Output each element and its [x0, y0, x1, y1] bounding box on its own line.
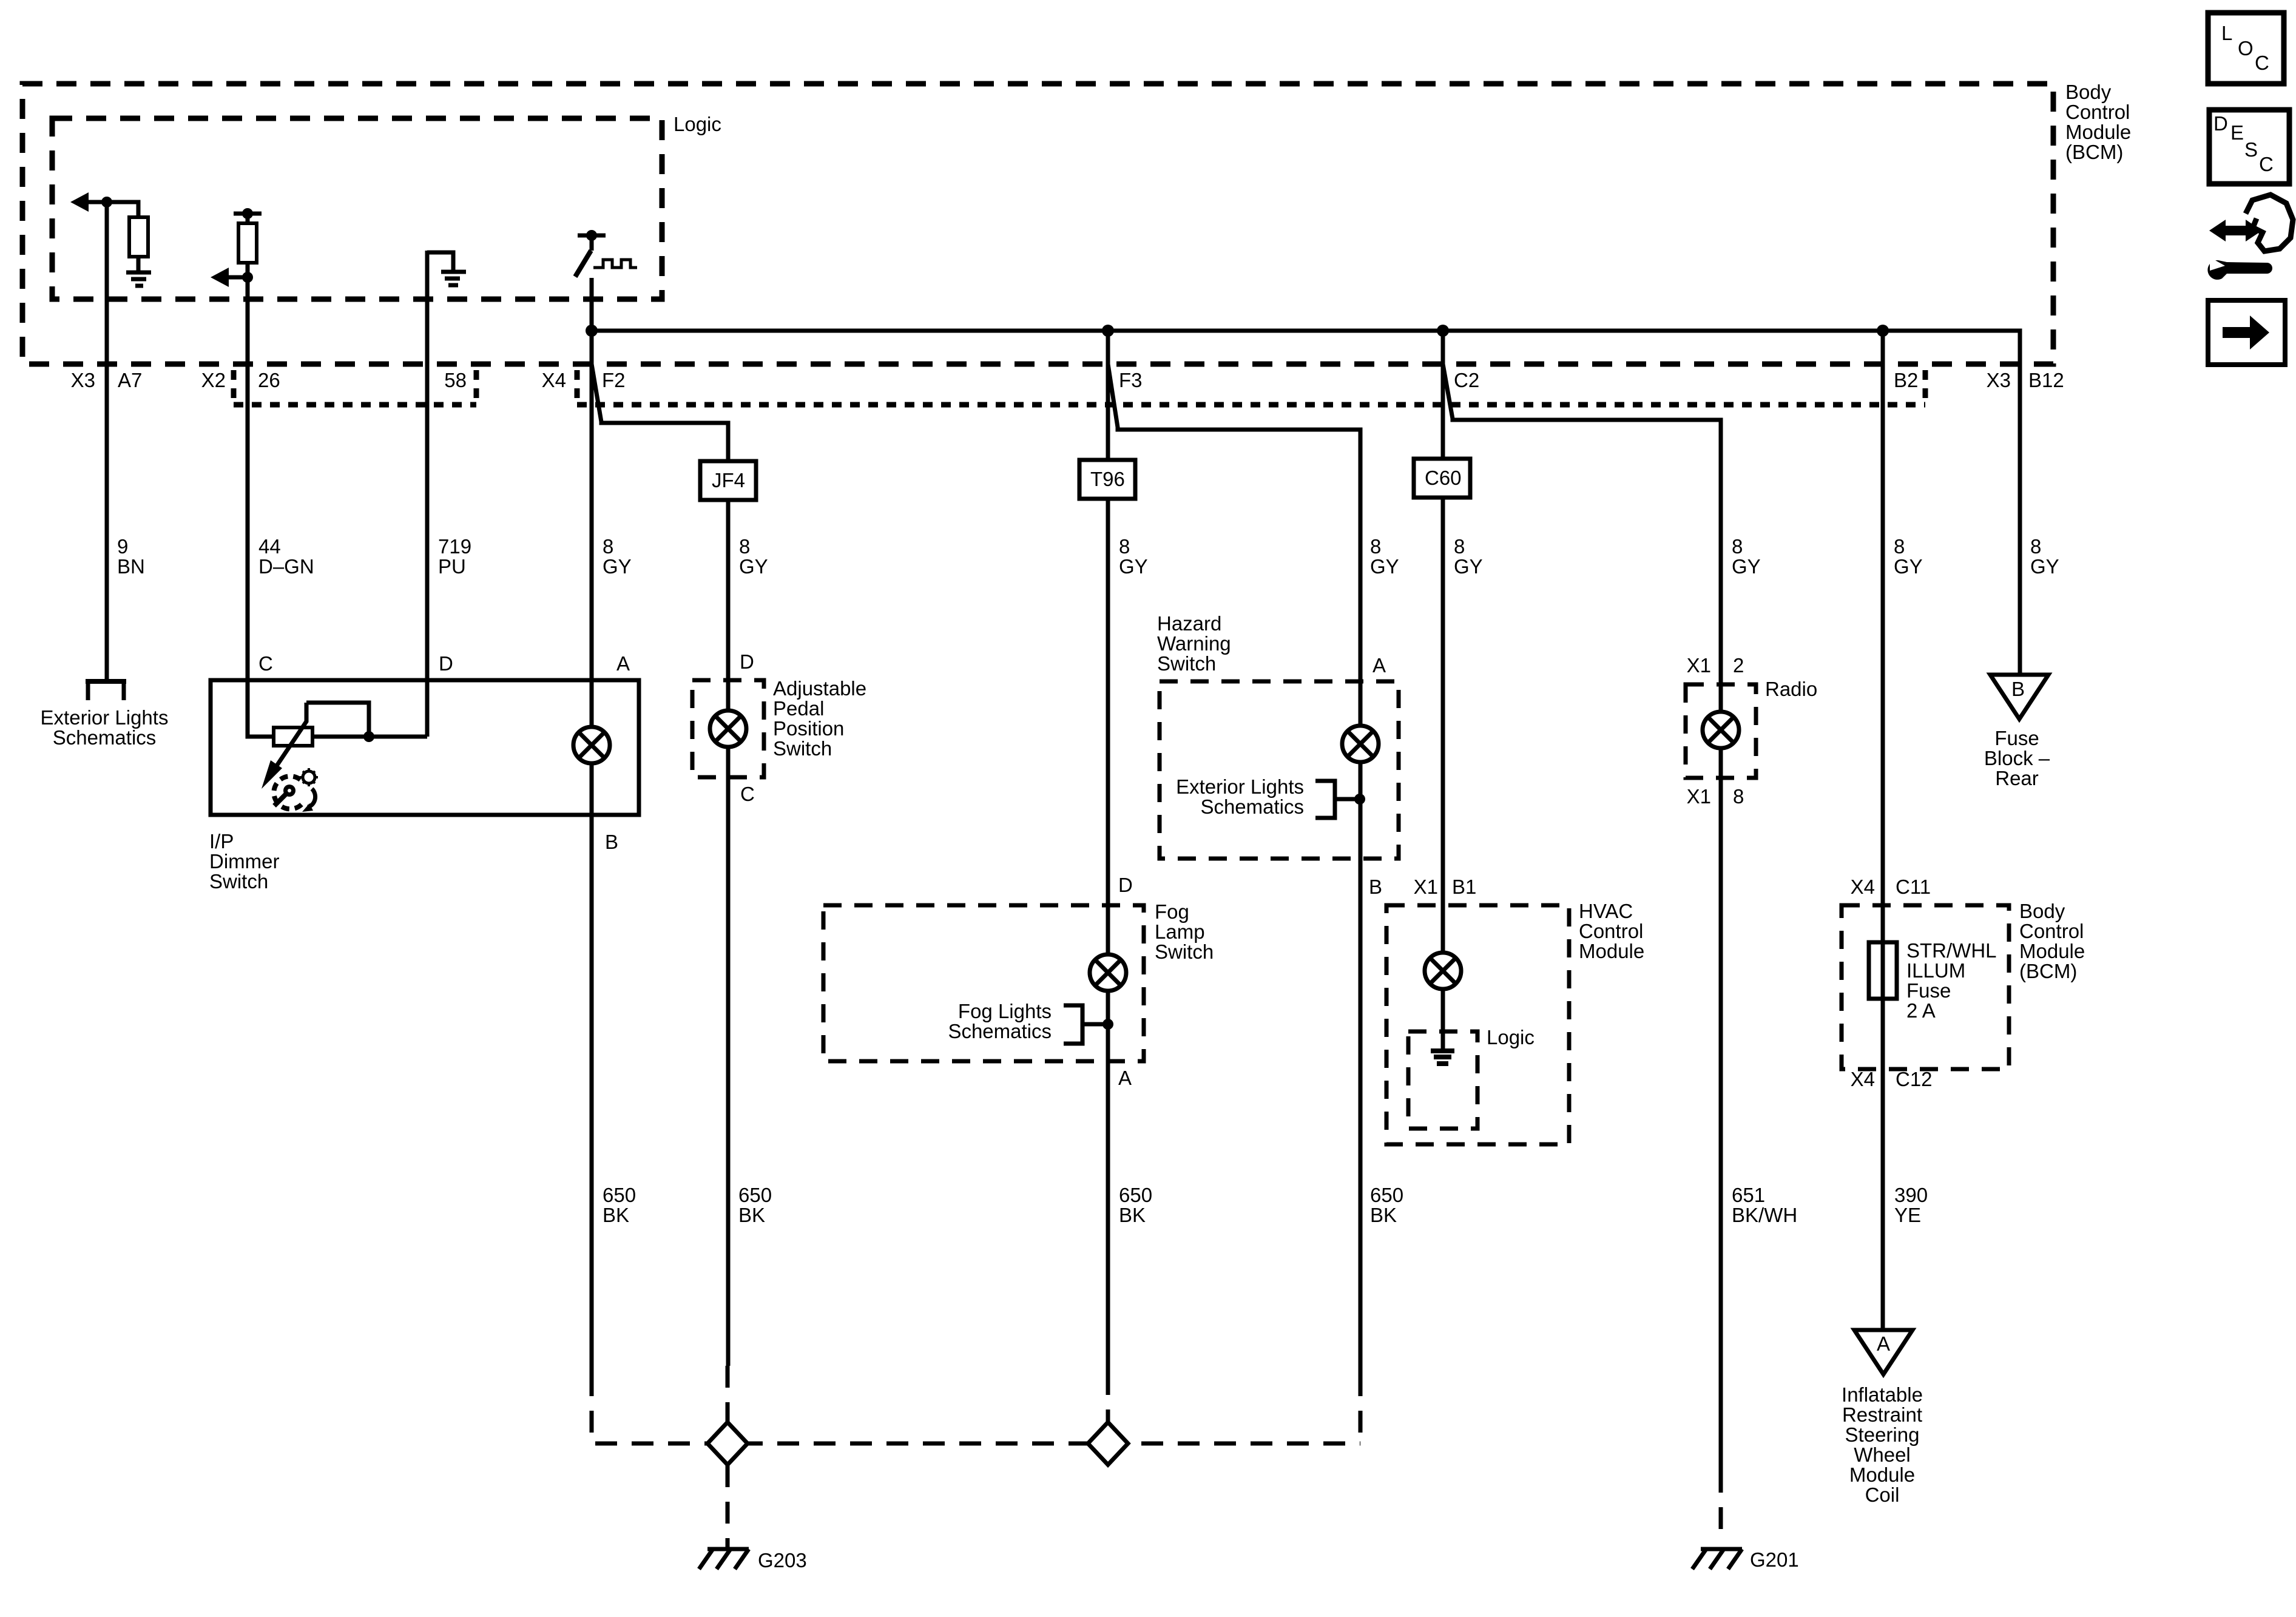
svg-text:Warning: Warning	[1157, 632, 1231, 655]
svg-text:HVAC: HVAC	[1579, 900, 1633, 922]
svg-text:8: 8	[1894, 535, 1905, 558]
svg-text:BK: BK	[1119, 1204, 1146, 1226]
svg-text:C2: C2	[1454, 369, 1479, 391]
svg-text:F3: F3	[1119, 369, 1143, 391]
svg-text:Fog Lights: Fog Lights	[958, 1000, 1052, 1022]
svg-text:G203: G203	[758, 1549, 807, 1571]
svg-text:BK: BK	[603, 1204, 629, 1226]
svg-text:Coil: Coil	[1865, 1484, 1900, 1506]
svg-text:GY: GY	[603, 555, 632, 578]
svg-text:8: 8	[1733, 785, 1744, 808]
svg-text:D: D	[1118, 874, 1133, 896]
svg-text:Dimmer: Dimmer	[209, 850, 279, 873]
svg-text:JF4: JF4	[712, 469, 745, 491]
svg-text:B2: B2	[1894, 369, 1918, 391]
svg-text:STR/WHL: STR/WHL	[1906, 939, 1997, 962]
svg-text:ILLUM: ILLUM	[1906, 959, 1965, 982]
svg-text:8: 8	[739, 535, 750, 558]
svg-text:Switch: Switch	[773, 737, 832, 760]
svg-text:Position: Position	[773, 717, 844, 740]
svg-text:GY: GY	[1454, 555, 1483, 578]
svg-text:X1: X1	[1687, 785, 1711, 808]
svg-text:650: 650	[1370, 1184, 1403, 1206]
svg-text:X2: X2	[201, 369, 226, 391]
svg-text:650: 650	[1119, 1184, 1152, 1206]
svg-text:C11: C11	[1896, 876, 1931, 898]
svg-text:8: 8	[1119, 535, 1130, 558]
svg-text:BK: BK	[738, 1204, 765, 1226]
svg-text:2 A: 2 A	[1906, 999, 1936, 1022]
svg-text:O: O	[2238, 37, 2254, 59]
svg-text:Radio: Radio	[1765, 678, 1817, 700]
svg-text:Schematics: Schematics	[948, 1020, 1052, 1042]
svg-text:A: A	[616, 652, 630, 675]
svg-text:C: C	[258, 652, 273, 675]
svg-text:GY: GY	[2030, 555, 2059, 578]
svg-text:A7: A7	[118, 369, 142, 391]
svg-text:X3: X3	[71, 369, 95, 391]
svg-text:719: 719	[438, 535, 471, 558]
svg-text:X3: X3	[1987, 369, 2011, 391]
svg-text:2: 2	[1733, 654, 1744, 677]
svg-text:Switch: Switch	[209, 870, 268, 893]
svg-text:Switch: Switch	[1155, 940, 1214, 963]
svg-text:G201: G201	[1750, 1548, 1799, 1571]
svg-text:T96: T96	[1090, 468, 1125, 490]
svg-text:A: A	[1877, 1332, 1890, 1355]
svg-text:8: 8	[1732, 535, 1743, 558]
svg-text:26: 26	[258, 369, 280, 391]
svg-text:D: D	[740, 650, 754, 673]
svg-text:Hazard: Hazard	[1157, 612, 1221, 635]
svg-text:B12: B12	[2028, 369, 2064, 391]
svg-text:F2: F2	[602, 369, 626, 391]
svg-text:Exterior Lights: Exterior Lights	[41, 706, 169, 729]
svg-text:8: 8	[603, 535, 613, 558]
svg-text:8: 8	[1454, 535, 1465, 558]
svg-text:X1: X1	[1414, 876, 1438, 898]
svg-text:Body: Body	[2019, 900, 2065, 922]
svg-text:GY: GY	[1732, 555, 1761, 578]
svg-text:Rear: Rear	[1995, 767, 2039, 789]
svg-text:Fuse: Fuse	[1906, 979, 1951, 1002]
svg-text:C60: C60	[1425, 467, 1462, 489]
svg-text:C: C	[740, 783, 755, 805]
svg-text:D: D	[2213, 112, 2228, 135]
svg-text:BN: BN	[117, 555, 145, 578]
svg-text:L: L	[2221, 22, 2232, 44]
svg-text:E: E	[2230, 121, 2244, 144]
svg-text:X1: X1	[1687, 654, 1711, 677]
svg-text:B1: B1	[1452, 876, 1476, 898]
svg-text:Module: Module	[1849, 1463, 1915, 1486]
svg-text:8: 8	[1370, 535, 1381, 558]
svg-text:Block –: Block –	[1984, 747, 2050, 769]
svg-text:Inflatable: Inflatable	[1842, 1383, 1923, 1406]
svg-text:Schematics: Schematics	[1200, 795, 1304, 818]
svg-text:Schematics: Schematics	[53, 726, 157, 749]
svg-text:BK: BK	[1370, 1204, 1397, 1226]
svg-text:Steering: Steering	[1845, 1423, 1920, 1446]
svg-text:B: B	[2011, 678, 2025, 700]
svg-text:A: A	[1118, 1067, 1132, 1089]
svg-text:Fuse: Fuse	[1994, 727, 2039, 749]
svg-text:651: 651	[1732, 1184, 1765, 1206]
svg-text:Body: Body	[2065, 81, 2112, 103]
svg-text:X4: X4	[542, 369, 566, 391]
svg-text:Logic: Logic	[1487, 1026, 1535, 1048]
svg-text:58: 58	[444, 369, 467, 391]
svg-text:(BCM): (BCM)	[2065, 141, 2123, 163]
svg-text:YE: YE	[1894, 1204, 1921, 1226]
svg-text:GY: GY	[1894, 555, 1923, 578]
svg-text:Module: Module	[1579, 940, 1644, 962]
svg-text:GY: GY	[1119, 555, 1148, 578]
svg-text:X4: X4	[1851, 876, 1875, 898]
svg-text:GY: GY	[1370, 555, 1399, 578]
svg-text:C12: C12	[1896, 1068, 1933, 1090]
svg-text:A: A	[1373, 654, 1386, 677]
svg-text:Control: Control	[2065, 101, 2130, 123]
svg-text:D–GN: D–GN	[258, 555, 314, 578]
svg-text:X4: X4	[1851, 1068, 1875, 1090]
svg-text:Wheel: Wheel	[1854, 1443, 1911, 1466]
svg-text:Module: Module	[2065, 121, 2131, 143]
svg-text:S: S	[2244, 138, 2258, 161]
svg-text:BK/WH: BK/WH	[1732, 1204, 1797, 1226]
svg-text:(BCM): (BCM)	[2019, 960, 2077, 982]
svg-text:C: C	[2259, 153, 2274, 175]
svg-text:I/P: I/P	[209, 830, 234, 852]
svg-text:650: 650	[738, 1184, 772, 1206]
svg-text:B: B	[1369, 876, 1382, 898]
svg-text:Control: Control	[2019, 920, 2084, 942]
svg-text:44: 44	[258, 535, 281, 558]
svg-text:Lamp: Lamp	[1155, 920, 1205, 943]
svg-text:Adjustable: Adjustable	[773, 677, 866, 700]
svg-text:390: 390	[1894, 1184, 1928, 1206]
svg-text:PU: PU	[438, 555, 466, 578]
svg-text:Control: Control	[1579, 920, 1643, 942]
svg-text:Fog: Fog	[1155, 900, 1189, 923]
svg-text:D: D	[439, 652, 453, 675]
svg-text:B: B	[605, 831, 618, 853]
svg-text:C: C	[2255, 52, 2269, 74]
svg-text:650: 650	[603, 1184, 636, 1206]
svg-text:Restraint: Restraint	[1842, 1403, 1922, 1426]
svg-text:Switch: Switch	[1157, 652, 1216, 675]
svg-text:GY: GY	[739, 555, 768, 578]
svg-text:Logic: Logic	[674, 113, 721, 135]
svg-text:Module: Module	[2019, 940, 2085, 962]
svg-text:9: 9	[117, 535, 128, 558]
svg-text:Pedal: Pedal	[773, 697, 824, 720]
svg-text:8: 8	[2030, 535, 2041, 558]
svg-text:Exterior Lights: Exterior Lights	[1176, 775, 1304, 798]
